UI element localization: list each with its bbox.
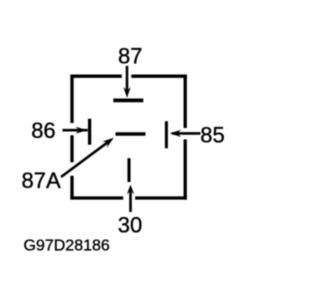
svg-text:85: 85 [200, 123, 224, 148]
svg-text:86: 86 [31, 118, 55, 143]
svg-text:G97D28186: G97D28186 [24, 237, 110, 254]
svg-text:87: 87 [118, 44, 142, 69]
svg-text:87A: 87A [22, 168, 61, 193]
svg-text:30: 30 [118, 213, 142, 238]
